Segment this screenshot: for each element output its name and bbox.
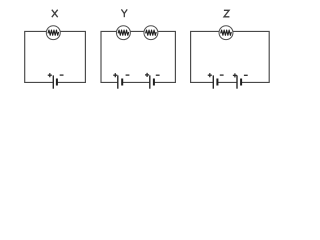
node X (circuit label) bbox=[52, 10, 58, 18]
battery cell B5 short plate (-) bbox=[240, 79, 242, 86]
lamp L3 (circuit Y, right) bbox=[144, 26, 158, 40]
battery cell B2 short plate (-) bbox=[121, 79, 123, 86]
minus sign of B2 bbox=[126, 74, 130, 76]
battery cell B2 long plate (+) bbox=[117, 75, 119, 88]
battery cell B1 long plate (+) bbox=[52, 75, 54, 88]
battery cell B4 short plate (-) bbox=[216, 79, 218, 86]
battery cell B3 short plate (-) bbox=[153, 79, 155, 86]
plus sign of B1 bbox=[48, 73, 52, 77]
lamp L4 (circuit Z) bbox=[219, 26, 233, 40]
battery cell B1 short plate (-) bbox=[56, 79, 58, 86]
plus sign of B3 bbox=[145, 73, 149, 77]
battery cell B4 long plate (+) bbox=[212, 75, 214, 88]
battery cell B3 long plate (+) bbox=[149, 75, 151, 88]
plus sign of B4 bbox=[208, 73, 212, 77]
minus sign of B3 bbox=[156, 74, 160, 76]
wire loop of circuit Z bbox=[191, 31, 270, 82]
lamp L2 (circuit Y, left) bbox=[116, 26, 130, 40]
minus sign of B5 bbox=[244, 74, 248, 76]
wire loop of circuit X bbox=[25, 31, 86, 82]
plus sign of B2 bbox=[113, 73, 117, 77]
minus sign of B4 bbox=[220, 74, 224, 76]
node Z (circuit label) bbox=[224, 10, 230, 16]
lamp L1 (circuit X) bbox=[46, 26, 60, 40]
minus sign of B1 bbox=[60, 74, 64, 76]
wire loop of circuit Y bbox=[101, 31, 175, 82]
plus sign of B5 bbox=[233, 73, 237, 77]
node Y (circuit label) bbox=[121, 9, 127, 17]
battery cell B5 long plate (+) bbox=[236, 75, 238, 88]
